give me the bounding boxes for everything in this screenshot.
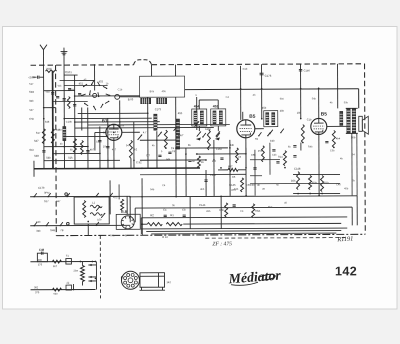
svg-text:S4B: S4B [50, 229, 55, 232]
svg-text:45b: 45b [206, 210, 211, 213]
svg-text:4b7: 4b7 [112, 148, 117, 151]
svg-text:7B: 7B [60, 229, 63, 232]
svg-text:4bb: 4bb [280, 110, 285, 113]
svg-text:142: 142 [335, 264, 357, 278]
svg-text:9k7: 9k7 [53, 265, 58, 268]
svg-text:94b: 94b [166, 158, 171, 161]
svg-text:C48: C48 [336, 183, 341, 186]
svg-text:1bb: 1bb [297, 112, 302, 115]
svg-text:C4b: C4b [250, 184, 255, 187]
svg-text:4bb7: 4bb7 [178, 134, 184, 137]
svg-text:54b: 54b [150, 188, 155, 191]
svg-text:547: 547 [29, 109, 34, 112]
svg-text:C4b8: C4b8 [205, 128, 212, 131]
svg-text:45b: 45b [258, 150, 263, 153]
svg-text:20w: 20w [73, 270, 78, 273]
svg-text:C5b: C5b [330, 149, 335, 152]
svg-text:5b4: 5b4 [268, 206, 273, 209]
svg-text:4b5: 4b5 [200, 188, 205, 191]
svg-text:S4B: S4B [29, 91, 34, 94]
svg-text:45b: 45b [262, 107, 267, 110]
svg-text:R6b: R6b [219, 209, 224, 212]
svg-text:54B0: 54B0 [56, 129, 62, 132]
svg-text:C48: C48 [39, 248, 45, 252]
svg-text:C14b: C14b [199, 204, 206, 207]
svg-text:54b: 54b [234, 188, 239, 191]
svg-text:R2: R2 [150, 213, 154, 217]
svg-text:44b: 44b [230, 144, 235, 147]
svg-text:C1b0: C1b0 [304, 70, 311, 73]
svg-text:10n: 10n [103, 145, 108, 148]
svg-text:B5: B5 [321, 111, 327, 117]
svg-text:4b0: 4b0 [212, 160, 217, 163]
svg-text:375: 375 [38, 263, 43, 266]
svg-text:451: 451 [79, 83, 84, 86]
svg-text:45A: 45A [312, 181, 317, 184]
svg-text:45b: 45b [178, 112, 183, 115]
svg-text:947: 947 [56, 200, 61, 203]
svg-text:R1: R1 [170, 213, 174, 217]
svg-text:475: 475 [113, 196, 118, 199]
svg-text:54b: 54b [312, 97, 317, 100]
svg-text:453: 453 [99, 80, 104, 83]
svg-text:C1b: C1b [307, 119, 312, 122]
svg-text:517: 517 [29, 83, 34, 86]
svg-text:1b2: 1b2 [133, 148, 138, 151]
svg-text:0PM: 0PM [44, 192, 49, 195]
svg-text:C172: C172 [155, 108, 162, 111]
svg-text:382: 382 [34, 286, 39, 289]
svg-text:C5b: C5b [29, 118, 34, 121]
svg-text:Wb: Wb [58, 85, 62, 88]
svg-text:B5: B5 [249, 114, 255, 120]
svg-text:142: 142 [166, 281, 171, 284]
svg-text:34b: 34b [36, 230, 41, 233]
svg-text:452: 452 [213, 104, 219, 108]
svg-text:54b: 54b [110, 234, 115, 237]
svg-text:R1191: R1191 [336, 235, 354, 243]
svg-text:C101: C101 [65, 70, 72, 74]
svg-text:C8: C8 [182, 209, 186, 212]
svg-text:45b: 45b [162, 90, 167, 93]
svg-text:C1b: C1b [118, 88, 123, 91]
svg-text:C5b: C5b [251, 154, 256, 157]
svg-text:C4b: C4b [96, 140, 101, 143]
svg-text:9k0: 9k0 [54, 293, 59, 296]
svg-text:S47: S47 [34, 140, 39, 143]
svg-text:54b: 54b [36, 221, 41, 224]
svg-text:B.05: B.05 [128, 98, 134, 101]
svg-text:C.7: C.7 [146, 154, 151, 157]
svg-text:C4b: C4b [70, 89, 75, 92]
svg-text:4b4: 4b4 [336, 137, 341, 140]
svg-text:B0b: B0b [150, 90, 155, 93]
svg-text:4b7: 4b7 [90, 148, 95, 151]
svg-text:B5k: B5k [291, 180, 296, 183]
svg-text:S17: S17 [44, 200, 49, 203]
svg-text:94b: 94b [29, 100, 34, 103]
svg-text:R 10: R 10 [162, 236, 168, 239]
svg-text:857: 857 [228, 165, 233, 168]
svg-text:45b: 45b [344, 187, 349, 190]
svg-text:C1b: C1b [243, 68, 248, 71]
svg-text:5b0: 5b0 [280, 98, 285, 101]
svg-text:ZF : 475: ZF : 475 [212, 241, 232, 247]
svg-text:C146: C146 [229, 184, 236, 187]
svg-text:C8b: C8b [246, 184, 251, 187]
svg-text:54b: 54b [46, 91, 51, 94]
svg-text:S1k: S1k [68, 157, 73, 160]
svg-text:S17: S17 [36, 132, 41, 135]
svg-text:R4b: R4b [308, 146, 313, 149]
svg-text:375: 375 [35, 291, 40, 294]
svg-text:C4b: C4b [270, 140, 275, 143]
svg-text:C1b2: C1b2 [216, 148, 223, 151]
svg-text:S4b: S4b [46, 157, 51, 160]
svg-text:380: 380 [38, 259, 43, 262]
svg-text:454: 454 [194, 105, 200, 109]
svg-text:C17b: C17b [38, 187, 45, 190]
svg-text:C4b: C4b [272, 154, 277, 157]
svg-text:R1b: R1b [324, 181, 329, 184]
svg-text:WW: WW [47, 68, 52, 71]
svg-text:S48: S48 [45, 121, 50, 124]
svg-text:50b: 50b [344, 101, 349, 104]
svg-text:S1b: S1b [29, 149, 34, 152]
svg-text:R8A: R8A [255, 210, 260, 213]
svg-text:C4: C4 [163, 209, 167, 212]
svg-text:B3: B3 [102, 118, 108, 123]
svg-text:C176: C176 [265, 74, 272, 78]
svg-text:50n: 50n [120, 124, 125, 127]
svg-text:C10b: C10b [66, 121, 73, 124]
svg-text:S48: S48 [34, 155, 39, 158]
svg-text:C148: C148 [294, 168, 301, 171]
svg-text:L0b: L0b [97, 218, 102, 221]
svg-text:R14: R14 [278, 156, 283, 159]
svg-text:4.7: 4.7 [143, 131, 147, 134]
svg-text:C.92: C.92 [136, 161, 142, 164]
